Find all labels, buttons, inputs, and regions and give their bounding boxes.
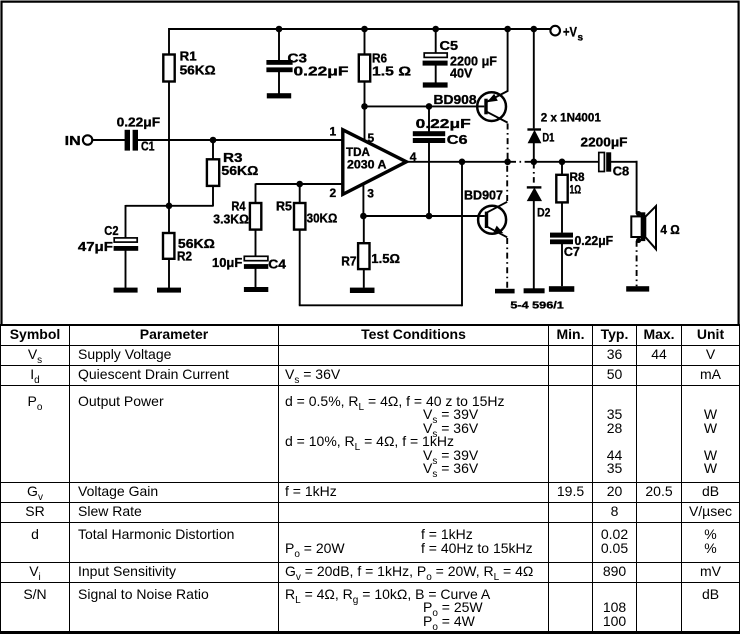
ground (R7): [350, 288, 375, 293]
wire top supply bus: [169, 28, 550, 30]
wire R4 stems: [255, 184, 257, 257]
svg-text:R5: R5: [276, 198, 292, 213]
ground (C4): [244, 287, 268, 292]
svg-text:5-4 596/1: 5-4 596/1: [510, 300, 564, 311]
wire R5 top stem: [299, 184, 301, 204]
label R8: [570, 170, 585, 196]
speaker: [631, 206, 656, 249]
wire BD907 emitter diagonal: [487, 227, 507, 238]
+Vs terminal: [550, 26, 560, 36]
wire C7 to ground: [561, 244, 563, 286]
svg-text:D1: D1: [542, 130, 554, 144]
transistor Q1 BD908: [477, 92, 506, 121]
label C5: [440, 38, 498, 81]
svg-text:2 x 1N4001: 2 x 1N4001: [541, 110, 601, 124]
wire BD907 emitter dashed drop to ground: [506, 238, 508, 289]
node on bus (BD908 emitter): [504, 26, 511, 33]
ground (R2): [157, 288, 181, 293]
wire D2 anode to ground: [533, 200, 535, 288]
op-amp U1 TDA2030A: [343, 130, 407, 195]
svg-text:4 Ω: 4 Ω: [660, 222, 679, 237]
wire R8 to C7: [561, 202, 563, 233]
node on bus (D1): [531, 26, 538, 33]
svg-text:+V: +V: [563, 25, 577, 40]
svg-text:2200μF: 2200μF: [581, 134, 628, 149]
svg-text:C5: C5: [440, 38, 459, 53]
ground (speaker): [626, 286, 649, 291]
wire pin5 node to BD908 base: [364, 105, 485, 107]
border frame: [2, 2, 739, 324]
svg-text:R2: R2: [177, 248, 192, 263]
wire R1 bottom to R2 top (crosses input wire, no junction): [168, 82, 170, 234]
ground (D2): [524, 288, 545, 293]
wire BD908 emitter diagonal and riser to bus: [487, 28, 508, 102]
svg-text:1.5Ω: 1.5Ω: [371, 251, 400, 266]
label R7: [341, 251, 400, 269]
svg-text:40V: 40V: [450, 66, 473, 81]
node pin3 wire/C6: [426, 213, 433, 220]
label C3: [288, 51, 349, 79]
wire pin3 node to BD907 base: [363, 215, 485, 217]
resistor R1: [163, 55, 174, 82]
wire D1 anode to output: [533, 143, 535, 163]
svg-text:C7: C7: [564, 245, 580, 259]
svg-text:3: 3: [367, 186, 374, 200]
wire C1 to pin 1: [138, 139, 343, 141]
input terminal: [83, 135, 92, 144]
label R4: [213, 198, 249, 226]
wire R3 stems: [212, 140, 214, 207]
svg-text:3.3KΩ: 3.3KΩ: [213, 211, 249, 226]
label C1: [117, 115, 161, 154]
resistor R8: [556, 175, 567, 203]
svg-text:s: s: [578, 33, 584, 44]
wire R5 bottom to feedback run: [299, 230, 301, 306]
resistor R2: [163, 233, 174, 259]
diode D2: [527, 187, 542, 200]
label R6: [372, 51, 411, 79]
label R5: [276, 198, 337, 225]
wire C8 to speaker corner: [611, 161, 637, 214]
svg-text:BD908: BD908: [434, 92, 477, 107]
svg-text:IN: IN: [65, 133, 81, 148]
svg-text:1Ω: 1Ω: [570, 182, 582, 196]
svg-text:10μF: 10μF: [212, 255, 242, 270]
wire C4 to ground: [255, 269, 257, 288]
svg-text:C4: C4: [268, 256, 287, 271]
label R1: [180, 49, 216, 78]
node output/BD transistors: [504, 159, 511, 166]
wire R6 stems / pin 5 stem: [364, 28, 366, 141]
svg-text:D2: D2: [537, 205, 551, 219]
svg-text:C8: C8: [613, 163, 629, 178]
wire R8 stem from output: [561, 161, 563, 175]
node pin5 wire/C6: [426, 103, 433, 110]
svg-text:47μF: 47μF: [78, 239, 113, 254]
wire BD908 collector dashed drop to output: [507, 124, 509, 162]
node on bus (R6): [361, 26, 368, 33]
wire feedback bottom horizontal: [299, 304, 462, 306]
wire feedback vertical to output: [461, 162, 463, 306]
wire IN to C1: [92, 139, 125, 141]
node input/R3: [210, 137, 217, 144]
ground (BD907 emitter): [495, 289, 515, 294]
node on bus (C3): [276, 26, 283, 33]
capacitor C5 (electrolytic): [423, 53, 448, 66]
ground (C5): [423, 82, 448, 87]
node output/R8: [559, 159, 566, 166]
svg-text:1: 1: [330, 125, 337, 139]
svg-text:0.22μF: 0.22μF: [117, 115, 161, 130]
svg-text:5: 5: [368, 131, 375, 145]
wire C6 stems (crosses output wire, no junction): [428, 106, 430, 217]
svg-text:30KΩ: 30KΩ: [307, 210, 338, 225]
capacitor C8 (electrolytic, horizontal): [599, 152, 611, 171]
label R3: [221, 150, 258, 178]
svg-text:C6: C6: [447, 132, 468, 147]
wire pin 3 stem: [362, 185, 364, 217]
wire BD908 collector diagonal: [487, 112, 508, 123]
wire R1 stem top: [168, 28, 170, 55]
resistor R5: [294, 203, 305, 230]
wire speaker dashed drop to ground: [636, 241, 638, 286]
wire C2 stems: [125, 205, 127, 288]
label +Vs: [563, 25, 584, 44]
wire bias node horizontal: [126, 205, 214, 207]
svg-text:0.22μF: 0.22μF: [416, 116, 471, 131]
svg-text:C2: C2: [104, 223, 118, 238]
node output/diodes: [531, 159, 538, 166]
svg-text:C1: C1: [141, 139, 155, 154]
capacitor C2 (electrolytic): [114, 238, 139, 251]
wire output to C8: [534, 161, 599, 163]
node on bus (C5): [432, 26, 439, 33]
label C6: [416, 116, 471, 147]
wire BD907 collector dashed rise to output: [506, 162, 508, 201]
svg-text:R7: R7: [341, 253, 356, 268]
wire C3 stem: [278, 28, 280, 94]
resistor R7: [358, 243, 369, 269]
ground (C7): [549, 286, 574, 292]
wire op-amp output: [406, 161, 508, 163]
label C4: [212, 255, 287, 272]
label C7: [564, 234, 614, 259]
capacitor C1: [125, 130, 138, 151]
svg-text:0.22μF: 0.22μF: [575, 234, 614, 248]
capacitor C3: [266, 60, 292, 72]
capacitor C4 (electrolytic): [244, 256, 268, 269]
node pin5 wire/R6: [361, 103, 368, 110]
ground (C2): [114, 288, 138, 293]
svg-text:0.22μF: 0.22μF: [294, 64, 349, 79]
svg-text:2030 A: 2030 A: [347, 158, 387, 172]
wire diode column from bus to D1: [533, 28, 535, 128]
node bias divider: [166, 203, 173, 210]
node pin3 wire/R7: [360, 213, 367, 220]
wire R2 bottom to ground: [168, 259, 170, 289]
wire dashed output to D2 cathode: [533, 163, 535, 186]
diode D1: [527, 130, 541, 143]
svg-text:BD907: BD907: [464, 187, 503, 202]
transistor Q2 BD907: [478, 206, 506, 234]
svg-text:2: 2: [330, 186, 337, 200]
wire R7 stems: [363, 216, 365, 288]
label C8: [581, 134, 630, 178]
wire output dashed segment to diode column: [510, 161, 534, 163]
resistor R4: [250, 203, 261, 230]
svg-text:56KΩ: 56KΩ: [180, 63, 216, 78]
resistor R3: [207, 159, 219, 186]
capacitor C6: [413, 131, 445, 143]
svg-text:4: 4: [410, 150, 417, 164]
svg-text:R1: R1: [180, 49, 197, 64]
svg-text:1.5 Ω: 1.5 Ω: [372, 64, 411, 79]
ground (C3): [267, 93, 291, 98]
capacitor C7: [550, 233, 573, 245]
svg-text:56KΩ: 56KΩ: [221, 163, 258, 178]
node output/feedback: [459, 159, 466, 166]
wire C5 stem: [435, 28, 437, 83]
label U1 TDA 2030A: [346, 145, 387, 172]
resistor R6: [359, 55, 370, 82]
label R2: [177, 236, 215, 263]
label C2: [78, 223, 119, 254]
node pin2/R5: [296, 181, 303, 188]
wire pin 2 horizontal: [256, 183, 343, 185]
wire BD907 collector diagonal: [487, 202, 507, 213]
